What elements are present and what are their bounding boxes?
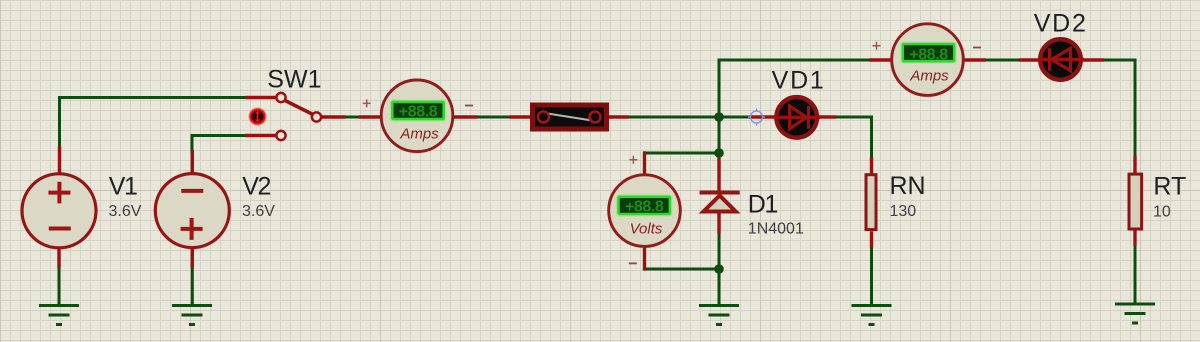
battery V2	[155, 174, 229, 248]
pin SW1 lower throw	[247, 134, 276, 137]
svg-text:RT: RT	[1153, 173, 1186, 201]
voltmeter U2	[609, 175, 681, 247]
pin V1 bottom	[57, 249, 60, 267]
ammeter A2 plus sign	[873, 42, 881, 50]
wire D1 bottom to node	[718, 232, 721, 269]
wire voltmeter plus horizontal	[645, 152, 720, 155]
svg-text:+88.8: +88.8	[399, 103, 438, 120]
ammeter U1 (A1)	[381, 80, 453, 152]
pin voltmeter bottom	[643, 248, 646, 269]
pin RT bottom	[1133, 231, 1136, 244]
wire V2 bottom to ground	[191, 266, 194, 306]
pin V2 bottom	[191, 248, 194, 266]
wire fuse to node and VD1	[627, 116, 751, 119]
pin fuse right	[607, 115, 628, 118]
wire VD2 to RT	[1102, 60, 1135, 158]
ground RT	[1115, 304, 1155, 323]
node origin marker (blue circle)	[748, 109, 765, 126]
node junction voltmeter top	[714, 148, 724, 158]
switch SW1 red toggle button	[249, 108, 266, 125]
wire node to D1 anode top	[718, 153, 721, 161]
voltmeter minus sign	[629, 262, 637, 264]
pin voltmeter top	[643, 153, 646, 174]
resistor RN	[866, 175, 876, 230]
wire V1 top to SW1 upper throw	[60, 98, 248, 149]
diode D1 1N4001	[700, 193, 740, 212]
svg-text:SW1: SW1	[267, 65, 321, 93]
ground V1	[39, 306, 79, 325]
wire VD1 to RN corner	[835, 117, 872, 159]
wire node to voltmeter/D1 node	[718, 117, 721, 153]
svg-text:Volts: Volts	[630, 221, 663, 238]
wire voltmeter minus horizontal	[645, 268, 720, 271]
switch SW1	[276, 93, 321, 140]
pin VD1 right	[819, 115, 834, 118]
svg-text:D1: D1	[748, 191, 778, 219]
svg-text:V2: V2	[242, 173, 270, 201]
pin VD1 left	[751, 115, 774, 118]
svg-text:VD1: VD1	[772, 67, 826, 95]
pin A2 left	[871, 58, 890, 61]
ammeter U3 (A2)	[892, 24, 964, 96]
svg-text:+88.8: +88.8	[909, 46, 948, 63]
node junction voltmeter bottom	[714, 264, 724, 274]
pin RT top	[1133, 158, 1136, 172]
wire A1 to fuse	[476, 116, 511, 119]
wire A2 to VD2	[984, 59, 1021, 62]
pin V1 top	[58, 148, 61, 173]
svg-text:V1: V1	[109, 173, 137, 201]
pin A1 left	[361, 115, 379, 118]
pin A1 right	[456, 115, 477, 118]
pin A2 right	[966, 58, 985, 61]
pin VD2 left	[1021, 58, 1038, 61]
pin SW1 pole right	[322, 115, 345, 118]
pin D1 top	[717, 160, 720, 192]
svg-text:VD2: VD2	[1034, 9, 1088, 37]
ground V2	[172, 306, 212, 325]
voltmeter plus sign	[629, 156, 637, 164]
wire node up to ammeter A2	[719, 60, 871, 117]
ground RN	[852, 306, 892, 325]
svg-text:1N4001: 1N4001	[748, 220, 804, 237]
ammeter A2 minus sign	[973, 47, 981, 49]
wire D1 node to ground	[718, 269, 721, 305]
pin D1 bottom	[717, 213, 720, 232]
svg-text:RN: RN	[890, 172, 926, 200]
pin RN bottom	[870, 233, 873, 246]
svg-text:Amps: Amps	[399, 126, 439, 143]
pin fuse left	[511, 115, 530, 118]
wire RN bottom to ground	[870, 246, 873, 305]
fuse FU1	[533, 105, 607, 129]
pin SW1 upper throw	[247, 96, 276, 99]
diode VD1 (LED in circle)	[774, 97, 820, 138]
wire V2 top to SW1 lower throw	[192, 136, 247, 153]
ammeter A1 minus sign	[465, 105, 473, 107]
svg-text:10: 10	[1153, 203, 1171, 220]
wire V1 bottom to ground	[58, 267, 61, 306]
pin VD2 right	[1085, 58, 1103, 61]
wire SW1 pole to ammeter A1	[344, 116, 361, 119]
pin V2 top	[191, 152, 194, 173]
ground D1 branch	[699, 306, 739, 325]
node junction main	[714, 112, 724, 122]
svg-text:+88.8: +88.8	[625, 198, 664, 215]
wire RT bottom to ground	[1134, 244, 1137, 304]
svg-text:3.6V: 3.6V	[109, 203, 142, 220]
ammeter A1 plus sign	[363, 99, 371, 107]
pin RN top	[870, 159, 873, 173]
battery V1	[22, 174, 96, 248]
svg-text:130: 130	[890, 203, 917, 220]
svg-text:Amps: Amps	[909, 68, 949, 85]
svg-text:3.6V: 3.6V	[242, 203, 275, 220]
diode VD2 (LED in circle)	[1038, 39, 1084, 80]
resistor RT	[1129, 174, 1142, 229]
